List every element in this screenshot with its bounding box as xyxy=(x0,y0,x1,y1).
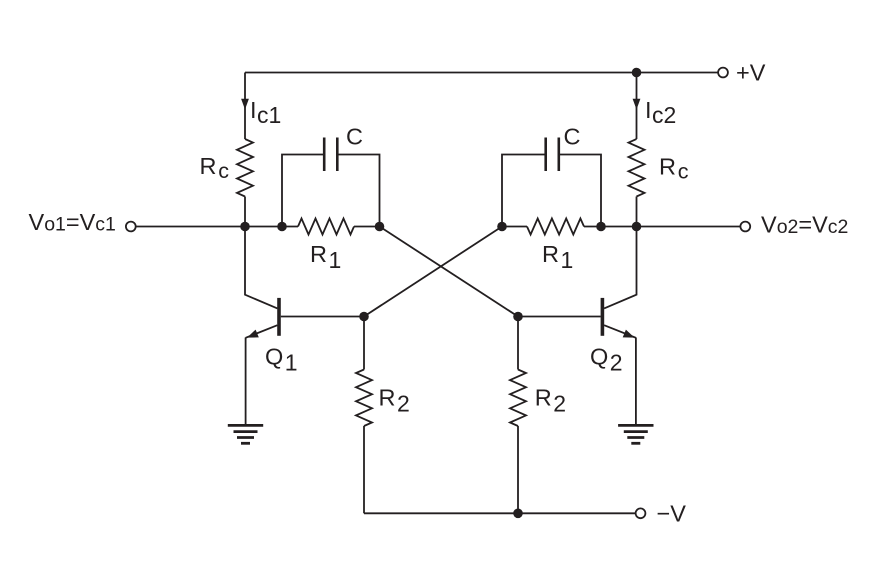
node left C loop right xyxy=(375,222,385,232)
node Q2 base junction xyxy=(513,312,523,322)
wire right supply branch xyxy=(636,73,638,140)
wire top +V rail xyxy=(245,72,718,74)
wire Q2 base node down xyxy=(517,317,519,370)
node bottom rail junction xyxy=(513,509,523,519)
wire Q1 base node down xyxy=(363,317,365,370)
resistor R2 left xyxy=(356,370,372,427)
wire left supply branch xyxy=(244,73,246,140)
wire left collector node to C loop xyxy=(245,226,298,228)
node right C loop right xyxy=(596,222,606,232)
wire RC left to collector node xyxy=(244,197,246,227)
resistor R1 left xyxy=(298,219,354,235)
svg-text:Vo2=Vc2: Vo2=Vc2 xyxy=(761,212,848,239)
terminal Vo2 xyxy=(740,222,750,232)
arrow current Ic2 xyxy=(633,99,641,110)
node Q1 base junction xyxy=(359,312,369,322)
wire R2 right to bottom rail xyxy=(517,426,519,513)
terminal -V xyxy=(636,508,646,518)
transistor Q1 xyxy=(245,227,364,338)
terminal +V xyxy=(718,68,728,78)
wire right C loop to right collector node xyxy=(601,226,637,228)
resistor R2 right xyxy=(510,370,526,427)
ground right xyxy=(618,425,653,443)
resistor R1 right xyxy=(502,226,527,228)
wire bottom -V rail xyxy=(364,512,636,514)
wire Q2 emitter to ground xyxy=(635,338,637,426)
svg-text:−V: −V xyxy=(657,500,687,526)
wire Q1 emitter to ground xyxy=(245,338,247,426)
capacitor C right loop xyxy=(502,155,546,227)
node top rail junction xyxy=(632,68,642,78)
resistor RC right xyxy=(629,139,645,197)
svg-text:C: C xyxy=(564,124,581,150)
wire RC right to collector node xyxy=(636,197,638,227)
wire cross-couple right C to Q1 base xyxy=(364,227,502,317)
node left C loop left xyxy=(277,222,287,232)
svg-text:Vo1=Vc1: Vo1=Vc1 xyxy=(29,209,116,236)
arrow current Ic1 xyxy=(241,99,249,110)
terminal Vo1 xyxy=(126,222,136,232)
node right C loop left xyxy=(497,222,507,232)
node right collector xyxy=(632,222,642,232)
node left collector xyxy=(240,222,250,232)
wire cross-couple left R1 to Q2 base xyxy=(380,227,519,317)
wire right collector node to Vo2 xyxy=(637,226,741,228)
capacitor C left loop xyxy=(282,155,324,227)
transistor Q2 xyxy=(518,227,637,338)
wire R2 left to bottom rail xyxy=(363,426,365,513)
ground left xyxy=(228,425,263,443)
svg-text:+V: +V xyxy=(736,60,766,86)
svg-text:C: C xyxy=(346,124,363,150)
resistor RC left xyxy=(237,139,253,197)
wire Vo1 to left collector node xyxy=(136,226,245,228)
